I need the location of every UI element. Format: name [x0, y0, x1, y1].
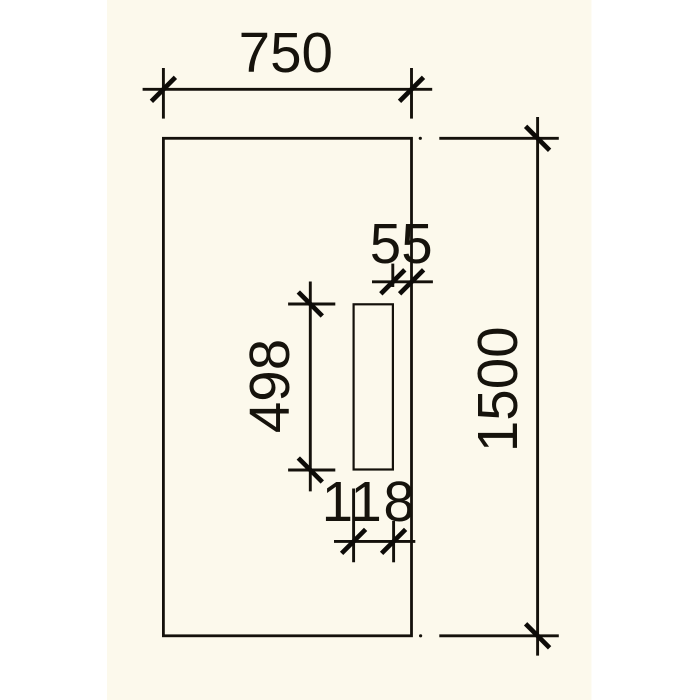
dimension 750: left tick: [151, 77, 175, 101]
dimension 55: left extension line: [391, 264, 394, 287]
svg-text:750: 750: [239, 21, 333, 84]
dimension 1500: top tick: [526, 126, 550, 150]
dimension 55: dimension line: [372, 280, 433, 283]
svg-text:55: 55: [370, 212, 433, 275]
dimension 1500: top extension dot: [419, 137, 422, 140]
dimension 498: top extension line: [288, 303, 335, 306]
dimension 118: right tick: [382, 529, 406, 553]
dimension 1500: dimension line: [536, 117, 539, 656]
dimension 1500: bottom extension dot: [419, 634, 422, 637]
svg-text:1500: 1500: [466, 326, 529, 452]
svg-text:498: 498: [238, 339, 301, 433]
dimension 1500: top extension line: [439, 137, 559, 140]
dimension 1500: bottom tick: [526, 624, 550, 648]
dimension 498: bottom tick: [298, 458, 322, 482]
dimension 750: right tick: [400, 77, 424, 101]
dimension 55: right tick: [400, 270, 424, 294]
dimension 118: left extension line: [352, 489, 355, 563]
dimension 118: right extension line: [392, 521, 395, 562]
dimension 498: bottom extension line: [288, 469, 335, 472]
dimension 1500: bottom extension line: [439, 634, 559, 637]
dimension 750: left extension line: [162, 68, 165, 119]
panel outline 750x1500: [163, 138, 411, 636]
svg-text:118: 118: [322, 470, 417, 533]
dimension 498: top tick: [298, 292, 322, 316]
dimension 118: left tick: [342, 529, 366, 553]
dimension 55: left tick: [381, 270, 405, 294]
slot cutout: [354, 304, 393, 469]
dimension 118: dimension line: [334, 540, 415, 543]
cream drawing sheet: [107, 0, 592, 700]
dimension 750: dimension line: [143, 88, 433, 91]
dimension 498: dimension line: [309, 282, 312, 492]
dimension 750: right extension line: [410, 68, 413, 119]
